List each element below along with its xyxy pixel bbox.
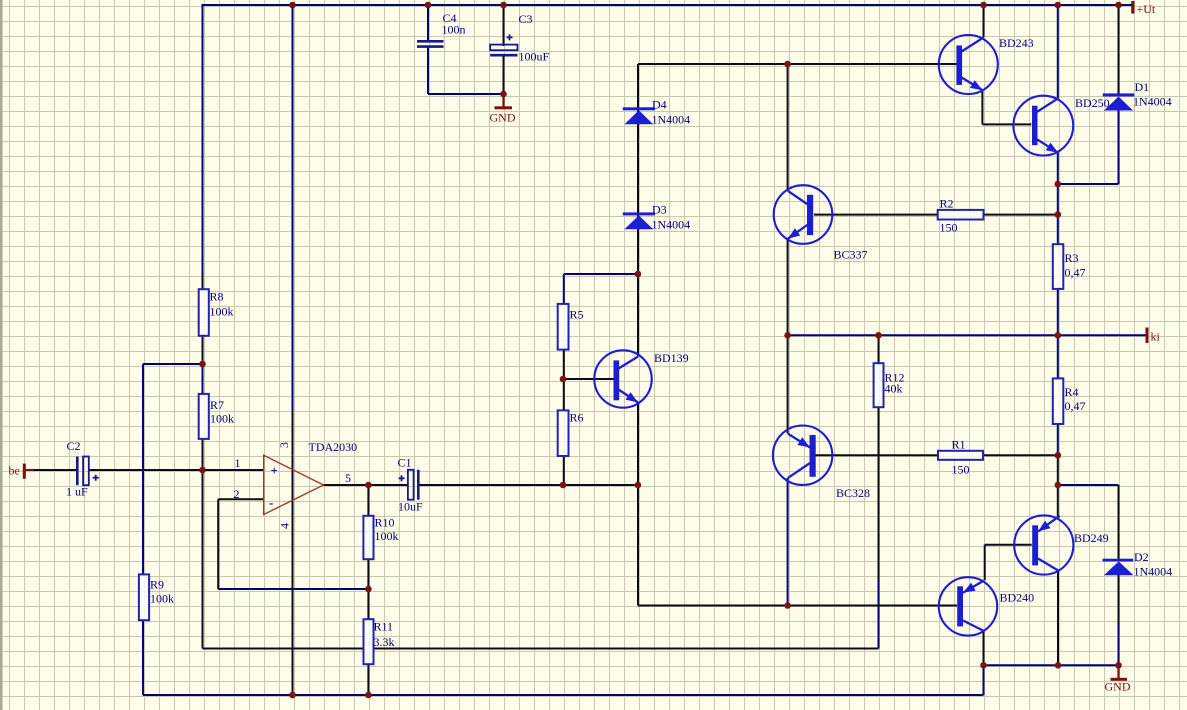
wire op-amp supply rail through triangle [292, 455, 294, 514]
node junction output-x638 [635, 482, 642, 489]
op-amp U1 TDA2030 [264, 455, 324, 514]
wire link right rail to D2 column [1058, 484, 1119, 486]
wire D1 top pin [1118, 5, 1120, 94]
svg-text:R11: R11 [374, 620, 394, 634]
svg-text:R8: R8 [210, 290, 224, 304]
wire BC337 base to R2 [814, 214, 938, 216]
wire BC337 column x=787.6 [787, 64, 789, 434]
svg-text:R2: R2 [940, 197, 954, 211]
svg-text:1N4004: 1N4004 [652, 113, 691, 127]
wire op-amp pin4 stub [292, 515, 294, 696]
capacitor C4 [417, 41, 444, 46]
wire BD249 base to BD240 emitter [985, 545, 1032, 581]
resistor R3 [1053, 244, 1064, 289]
node junction ground line BD240 [980, 662, 987, 669]
capacitor C1 [399, 470, 419, 500]
node junction R8-R7 [199, 361, 206, 368]
ground GND top [490, 94, 516, 125]
svg-text:1N4004: 1N4004 [1134, 565, 1173, 579]
svg-text:D2: D2 [1134, 550, 1149, 564]
resistor R5 [558, 304, 569, 350]
svg-text:100n: 100n [442, 23, 466, 37]
wire R5 bottom to BD139 base node [563, 350, 565, 379]
transistor BD243 [939, 35, 998, 94]
wire diode chain x=638 [637, 64, 639, 485]
wire R12 lower run to feedback line [878, 580, 880, 649]
svg-text:BC337: BC337 [834, 248, 868, 262]
svg-text:BD243: BD243 [999, 36, 1034, 50]
resistor R1 [938, 451, 983, 460]
svg-text:40k: 40k [885, 382, 903, 396]
svg-text:D4: D4 [652, 98, 667, 112]
node junction R6 bottom output line [560, 482, 567, 489]
wire BD240 base line [638, 605, 957, 607]
resistor R7 [199, 394, 209, 439]
resistor R4 [1053, 378, 1064, 424]
diode D3 [623, 212, 655, 229]
wire op-amp supply rail x=292.5 upper [292, 5, 294, 410]
wire bottom bus [143, 665, 984, 695]
port ki [1146, 328, 1161, 344]
node junction ki line R12 [875, 332, 882, 339]
diode D1 [1103, 93, 1135, 110]
svg-text:0,47: 0,47 [1065, 399, 1086, 413]
svg-text:C1: C1 [398, 456, 412, 470]
svg-text:150: 150 [952, 463, 970, 477]
wire C3 pins [503, 5, 505, 94]
svg-text:R6: R6 [570, 411, 584, 425]
wire pin2 feedback loop horizontal to R10 bottom [218, 588, 368, 590]
svg-text:C2: C2 [67, 439, 81, 453]
wire R7 bottom to node A [202, 439, 204, 470]
wire D1 bottom link to right rail [1058, 111, 1119, 185]
wire bottom right ground line [984, 664, 1119, 666]
svg-text:3.3k: 3.3k [374, 635, 395, 649]
wire R11 pins [367, 589, 369, 695]
capacitor C3 [490, 34, 517, 55]
transistor BC328 [773, 426, 832, 485]
wire D2 anode lower segment [1118, 623, 1120, 665]
wire op-amp pin2 stub and loop vertical [218, 499, 264, 589]
left screen edge band [0, 0, 3, 710]
svg-text:100uF: 100uF [519, 50, 550, 64]
wire C4 bottom to C3 bottom [428, 47, 504, 95]
svg-text:4: 4 [278, 523, 292, 529]
wire R6 bottom to output line [563, 456, 565, 485]
wire BC328 base to R1 [814, 454, 938, 456]
svg-text:10uF: 10uF [398, 500, 423, 514]
wire top black line y=64 to BD243 base [638, 63, 957, 65]
svg-text:100k: 100k [150, 592, 174, 606]
wire D2 column [1118, 485, 1120, 623]
wire R6 top stub [563, 379, 565, 410]
node junction output-R10 [365, 482, 372, 489]
svg-text:C3: C3 [519, 12, 533, 26]
svg-text:R4: R4 [1065, 385, 1079, 399]
svg-text:3: 3 [277, 442, 291, 448]
wire D3 node to R5 branch [564, 274, 638, 304]
node junction bus-right rail [1055, 2, 1062, 9]
svg-text:R5: R5 [570, 308, 584, 322]
svg-text:150: 150 [940, 221, 958, 235]
transistor BD249 [1014, 515, 1073, 574]
wire R2 right to right rail [984, 214, 1058, 216]
svg-text:0,47: 0,47 [1065, 266, 1086, 280]
wire x=638 down from output node to BD240 base line [637, 485, 639, 606]
diode D4 [623, 107, 655, 124]
transistor BC337 [774, 185, 833, 244]
node junction rail-D1 link [1055, 181, 1062, 188]
wire BD240 collector to ground line [983, 631, 985, 666]
wire BD139 base [564, 378, 614, 380]
wire BD243 collector to bus [983, 5, 985, 37]
node junction rail-ki [1055, 332, 1062, 339]
node junction C3 bottom GND [500, 91, 507, 98]
svg-text:+: + [271, 463, 278, 478]
svg-text:5: 5 [345, 471, 351, 485]
wire be input to op-amp pin1 [26, 469, 264, 471]
transistor BD250 [1013, 96, 1073, 156]
wire top +Ut bus [202, 4, 1132, 6]
svg-text:1N4004: 1N4004 [1133, 95, 1172, 109]
node junction rail-R2 [1055, 211, 1062, 218]
wire R7 top stub [202, 364, 204, 394]
ground GND bottom [1105, 665, 1131, 693]
node junction BC328 collector base line [784, 602, 791, 609]
svg-text:BD250: BD250 [1075, 96, 1110, 110]
wire ki line [788, 334, 1146, 336]
resistor R2 [938, 210, 984, 220]
node junction bottom bus R11 [365, 692, 372, 699]
wire op-amp pin5 output to C1 [324, 484, 408, 486]
wire R8 bottom to junction and left branch to x=143 [143, 336, 203, 575]
node junction y64-BC337 [784, 61, 791, 68]
svg-text:BD139: BD139 [654, 351, 689, 365]
wire BC328 collector down to base line [787, 478, 789, 606]
node junction ground line BD249 [1055, 662, 1062, 669]
resistor R9 [139, 574, 149, 620]
svg-text:1 uF: 1 uF [66, 485, 88, 499]
svg-text:BC328: BC328 [836, 486, 870, 500]
svg-text:100k: 100k [210, 305, 234, 319]
node junction pin1 input [199, 467, 206, 474]
svg-text:+Ut: +Ut [1137, 2, 1156, 16]
wire op-amp pin3 stub [292, 410, 294, 455]
wire R12 upper lower run [878, 407, 880, 580]
svg-text:D3: D3 [652, 203, 667, 217]
wire R10 pins [367, 485, 369, 589]
svg-text:TDA2030: TDA2030 [309, 440, 358, 454]
svg-text:R3: R3 [1065, 251, 1079, 265]
node junction bottom bus pin4 [289, 692, 296, 699]
wire BD243 emitter to BD250 base [982, 90, 1031, 125]
wire C4 top stub [427, 5, 429, 42]
power port +Ut [1131, 1, 1156, 16]
svg-text:ki: ki [1151, 330, 1161, 344]
node junction bus-C3 [500, 2, 507, 9]
svg-text:R9: R9 [150, 578, 164, 592]
resistor R6 [558, 410, 569, 456]
wire R8 pins [202, 275, 204, 364]
wire left rail x=202 from bus to R8 [202, 4, 204, 290]
svg-text:BD249: BD249 [1074, 531, 1109, 545]
diode D2 [1103, 559, 1134, 576]
node junction R5-R6 base BD139 [560, 376, 567, 383]
node junction bus-D1 [1115, 2, 1122, 9]
svg-text:-: - [269, 495, 273, 510]
wire R7 lower pin and node A down to feedback corner [202, 439, 204, 649]
wire R9 bottom to bottom bus [142, 620, 144, 695]
wire BD249 emitter down to ground line [1057, 571, 1059, 665]
node junction ground line D2 GND [1115, 662, 1122, 669]
svg-text:BD240: BD240 [1000, 591, 1035, 605]
port be [9, 464, 35, 479]
node junction rail-R1 [1055, 452, 1062, 459]
svg-text:R7: R7 [210, 398, 224, 412]
node junction bus-C4 [425, 2, 432, 9]
wire right rail x=1057.8 top [1057, 5, 1059, 99]
node junction R10-R11 feedback [365, 586, 372, 593]
resistor R8 [199, 289, 209, 336]
wire C1 output line to BD139 emitter column [419, 484, 638, 486]
node junction ki line BC337 emitter [784, 332, 791, 339]
wire rail to BD249 collector [1057, 455, 1059, 519]
svg-text:100k: 100k [375, 529, 399, 543]
resistor R10 [363, 516, 373, 559]
wire R1 right to rail [983, 454, 1058, 456]
svg-text:2: 2 [234, 487, 240, 501]
capacitor C2 [77, 457, 98, 486]
wire feedback line y=648.5 [203, 648, 879, 650]
svg-text:1N4004: 1N4004 [652, 218, 691, 232]
transistor BD240 [939, 577, 997, 635]
svg-text:GND: GND [1105, 680, 1131, 694]
resistor R12 [874, 363, 884, 407]
node junction D3-BD139 collector [635, 271, 642, 278]
svg-text:GND: GND [490, 111, 516, 125]
svg-text:100k: 100k [210, 412, 234, 426]
wire right rail x=1057.8 middle [1057, 153, 1059, 456]
svg-text:R1: R1 [952, 438, 966, 452]
resistor R11 [364, 619, 374, 664]
svg-text:R10: R10 [375, 516, 395, 530]
svg-text:be: be [9, 464, 20, 478]
svg-text:1: 1 [235, 456, 241, 470]
wire R12 pins [878, 335, 880, 363]
transistor BD139 [594, 350, 651, 407]
node junction rail-D2 link [1055, 482, 1062, 489]
svg-text:D1: D1 [1135, 80, 1150, 94]
node junction bus-pin3 rail [289, 2, 296, 9]
node junction bus-BD243 collector [980, 2, 987, 9]
